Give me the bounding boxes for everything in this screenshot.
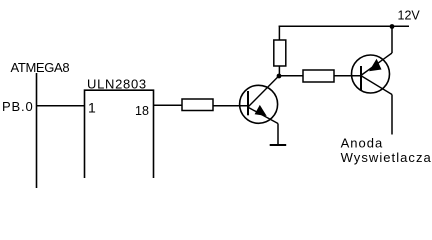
svg-text:ULN2803: ULN2803 [87, 77, 147, 92]
wire R3 to Q2 base [334, 75, 361, 77]
wire R1 to Q1 base [213, 105, 248, 107]
wire node A up to R2 [278, 66, 280, 76]
wire 12V rail [279, 25, 409, 27]
wire node B down to Q2 collector [391, 27, 393, 54]
svg-text:PB.0: PB.0 [2, 99, 34, 114]
wire PB.0 to ULN pin 1 [37, 105, 86, 107]
node B junction dot [390, 24, 395, 29]
svg-text:12V: 12V [398, 9, 421, 23]
resistor R2 [274, 40, 286, 66]
transistor Q2 [352, 53, 393, 95]
transistor Q1 [240, 76, 279, 124]
wire pin 18 to R1 [154, 104, 183, 106]
svg-text:ATMEGA8: ATMEGA8 [11, 60, 70, 75]
wire ATMEGA8 right edge [36, 73, 38, 188]
wire node A to R3 [279, 75, 303, 77]
wire Q1 emitter to ground [277, 124, 279, 146]
resistor R1 [182, 99, 213, 111]
wire Q2 emitter to anode [391, 95, 393, 135]
ground [270, 144, 287, 146]
wire R2 up to 12V rail [278, 26, 280, 41]
resistor R3 [303, 70, 334, 82]
svg-text:18: 18 [135, 104, 149, 118]
node A junction dot [277, 74, 282, 79]
IC U1 ULN2803 box [85, 90, 154, 178]
svg-text:1: 1 [88, 100, 96, 116]
svg-text:Anoda: Anoda [341, 136, 384, 151]
svg-text:Wyswietlacza: Wyswietlacza [341, 150, 432, 165]
